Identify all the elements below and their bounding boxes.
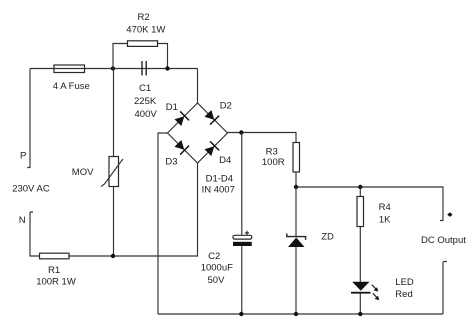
svg-text:C1: C1 (139, 83, 151, 94)
wire R4 branch (359, 187, 361, 282)
resistor R1 (40, 253, 70, 259)
svg-text:230V AC: 230V AC (12, 184, 50, 195)
svg-text:D4: D4 (219, 155, 231, 166)
wire R3 bottom to mid rail (296, 172, 444, 221)
svg-text:4 A Fuse: 4 A Fuse (53, 81, 90, 92)
node ZD-bottom junction dot (294, 312, 298, 316)
svg-text:225K: 225K (134, 96, 157, 107)
svg-text:R1: R1 (48, 265, 60, 276)
wire plus rail from bridge right vertex to R3 (228, 133, 297, 143)
svg-text:D1-D4: D1-D4 (206, 174, 233, 185)
diode D1 (175, 116, 185, 126)
wire MOV branch (113, 69, 115, 257)
diode D4 (205, 146, 215, 156)
svg-text:C2: C2 (208, 251, 220, 262)
node LED-bottom junction dot (358, 312, 362, 316)
diode D2 (205, 110, 215, 120)
node R4-top junction dot (358, 185, 362, 189)
node C2-bottom junction dot (239, 312, 243, 316)
bridge rectifier diamond wires (168, 103, 228, 163)
node MOV-bottom junction dot (111, 254, 115, 258)
wire zener branch (295, 187, 297, 314)
zener ZD (287, 234, 306, 240)
svg-text:100R 1W: 100R 1W (36, 277, 76, 288)
LED emission arrows (372, 285, 376, 289)
svg-text:LED: LED (395, 277, 414, 288)
svg-text:470K 1W: 470K 1W (126, 25, 165, 36)
wire bridge left vertex to minus rail (crossover) (158, 133, 168, 314)
fuse F1 4 A Fuse (54, 65, 85, 73)
resistor R3 (293, 143, 300, 173)
label * plus terminal (447, 212, 452, 217)
svg-text:IN 4007: IN 4007 (202, 185, 235, 196)
svg-text:P: P (20, 151, 26, 162)
resistor R4 (357, 197, 364, 227)
svg-text:D2: D2 (220, 101, 232, 112)
capacitor C1 (142, 61, 146, 76)
svg-text:R3: R3 (266, 147, 278, 158)
svg-text:R4: R4 (379, 202, 391, 213)
node B junction dot (165, 66, 169, 70)
svg-text:N: N (19, 215, 26, 226)
wire R2 loop (113, 44, 168, 69)
wire top rail from P corner through fuse to node B and bridge top (30, 69, 198, 104)
wire bottom minus rail (158, 262, 447, 315)
diode D3 (175, 140, 185, 150)
svg-text:DC Output: DC Output (421, 235, 466, 246)
svg-text:R2: R2 (138, 12, 150, 23)
svg-text:D3: D3 (165, 157, 177, 168)
svg-text:1K: 1K (379, 215, 391, 226)
node plus-rail/C2 junction dot (239, 130, 243, 134)
varistor MOV (109, 157, 119, 187)
svg-text:1000uF: 1000uF (201, 263, 233, 274)
resistor R2 (128, 41, 158, 47)
node A junction dot (111, 66, 115, 70)
node R3-bottom junction dot (294, 185, 298, 189)
svg-text:D1: D1 (166, 102, 178, 113)
svg-text:100R: 100R (262, 157, 285, 168)
svg-text:400V: 400V (135, 109, 158, 120)
LED D5 (352, 282, 369, 291)
svg-text:Red: Red (395, 289, 412, 300)
svg-text:ZD: ZD (321, 232, 334, 243)
wire N input vertical and bottom AC rail to bridge (30, 163, 198, 256)
capacitor C2 electrolytic (233, 235, 252, 239)
svg-text:MOV: MOV (72, 167, 94, 178)
wire P input vertical (27, 69, 30, 168)
svg-text:50V: 50V (208, 275, 226, 286)
wire C2 branch down (241, 133, 243, 315)
